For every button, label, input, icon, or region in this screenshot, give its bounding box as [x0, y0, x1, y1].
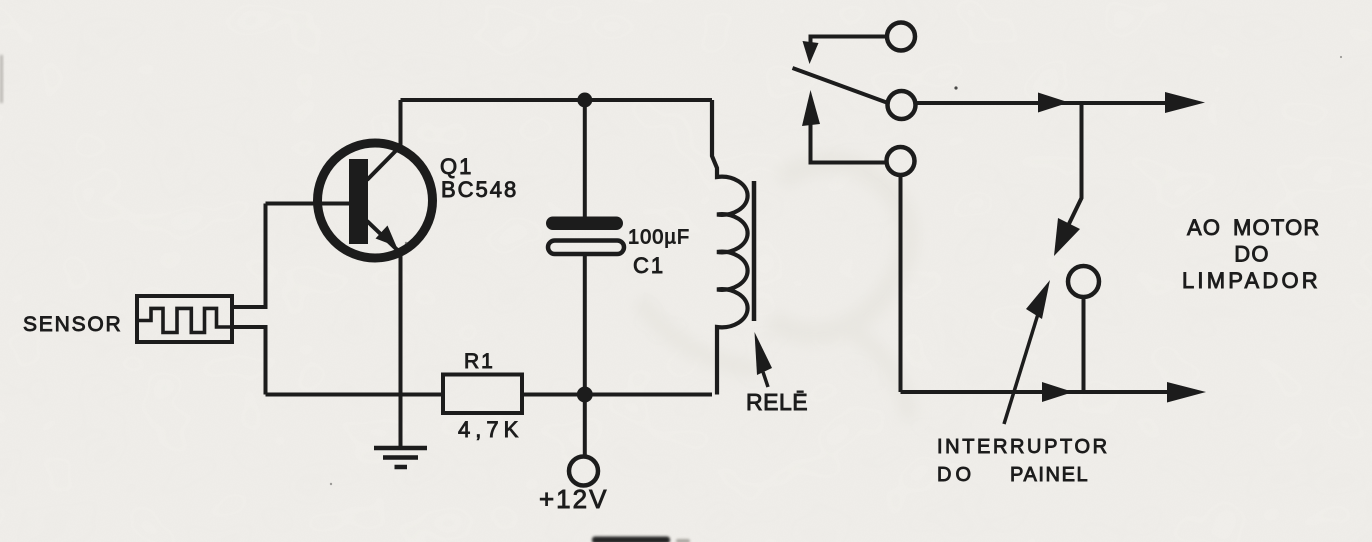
- svg-text:BC548: BC548: [441, 177, 518, 202]
- svg-text:DO: DO: [937, 464, 975, 486]
- svg-text:AO: AO: [1187, 215, 1221, 240]
- svg-text:LIMPADOR: LIMPADOR: [1182, 268, 1321, 293]
- svg-text:INTERRUPTOR: INTERRUPTOR: [937, 436, 1110, 458]
- svg-text:Q1: Q1: [440, 154, 473, 179]
- svg-text:R1: R1: [464, 350, 495, 373]
- svg-text:MOTOR: MOTOR: [1233, 215, 1320, 240]
- svg-text:+12V: +12V: [539, 484, 608, 514]
- svg-text:DO: DO: [1234, 242, 1269, 267]
- svg-text:4,7K: 4,7K: [458, 417, 523, 442]
- svg-text:100µF: 100µF: [628, 227, 690, 249]
- svg-text:RELĒ: RELĒ: [746, 389, 808, 415]
- svg-text:PAINEL: PAINEL: [1010, 464, 1089, 486]
- svg-text:SENSOR: SENSOR: [23, 313, 123, 336]
- svg-text:C1: C1: [633, 253, 665, 278]
